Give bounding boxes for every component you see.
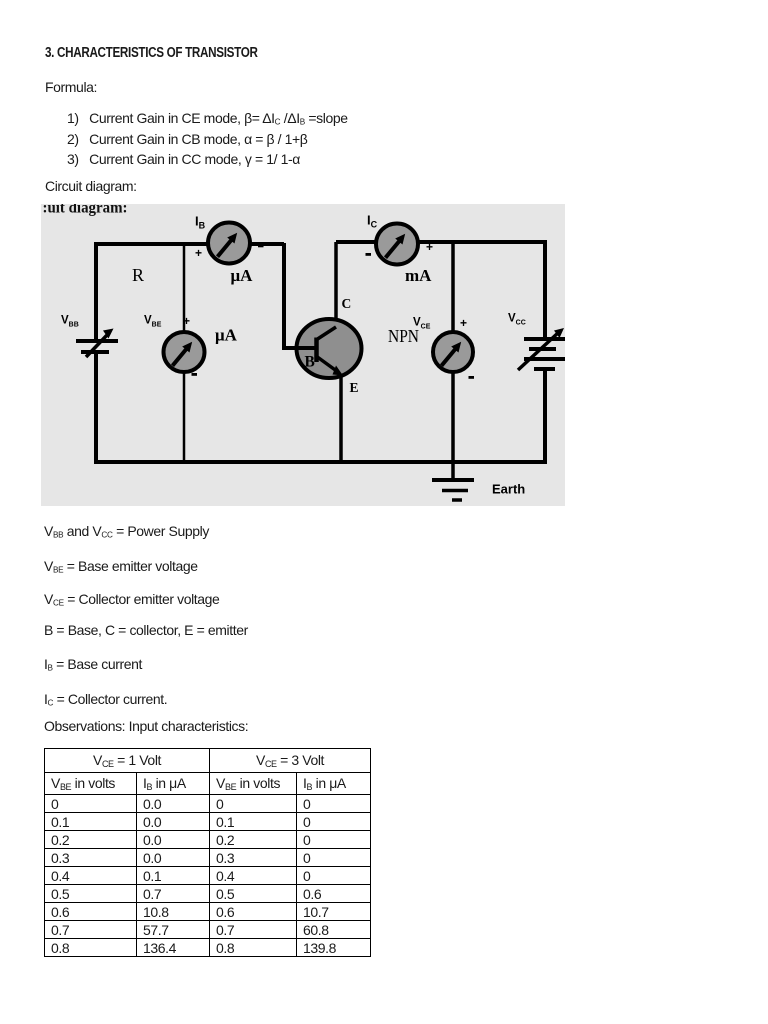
source VBB (variable battery) — [76, 334, 118, 357]
wire: VBE branch vertical — [183, 244, 186, 462]
legend line 1 — [44, 523, 209, 540]
svg-text:VBB: VBB — [61, 315, 79, 329]
IB minus sign — [258, 245, 264, 248]
svg-text:C: C — [342, 296, 352, 311]
VBE minus sign — [192, 373, 198, 376]
svg-text:mA: mA — [405, 266, 432, 285]
svg-text:B: B — [305, 354, 315, 371]
legend line 6 — [44, 691, 167, 708]
wire: right vertical lower (below VCC source) — [543, 369, 547, 464]
heading — [45, 45, 258, 61]
wire: left vertical upper (VBB branch) — [94, 242, 98, 341]
transistor Q1 (NPN) — [282, 319, 362, 378]
wire: top-left horizontal (VBB loop top) — [96, 242, 284, 246]
svg-text:+: + — [460, 316, 467, 330]
svg-text:+: + — [183, 314, 190, 328]
circuit scan image — [41, 204, 565, 506]
wire: top-right horizontal (collector loop top) — [336, 240, 547, 244]
legend line 5 — [44, 656, 142, 673]
svg-text:μA: μA — [215, 326, 238, 345]
svg-text:R: R — [132, 265, 144, 285]
svg-text::uit diagram:: :uit diagram: — [43, 204, 128, 217]
svg-text:+: + — [426, 240, 433, 254]
svg-text:VCC: VCC — [508, 313, 526, 327]
observations caption — [44, 718, 248, 734]
wire: VCE branch vertical — [451, 242, 455, 332]
wire: VCE meter down to ground — [451, 372, 455, 480]
wire: emitter vertical — [339, 374, 343, 462]
ground (Earth) — [432, 480, 474, 500]
wire: IB meter to base corner vertical — [282, 243, 286, 348]
source VCC (variable battery) — [518, 332, 565, 370]
legend line 2 — [44, 558, 198, 575]
list item 2 — [67, 131, 307, 147]
list item 3 — [67, 151, 300, 167]
svg-text:VBE: VBE — [144, 315, 162, 329]
svg-text:+: + — [195, 246, 202, 260]
observations table — [44, 748, 371, 957]
ammeter IB — [208, 223, 250, 264]
legend line 4 — [44, 622, 248, 638]
wire: bottom horizontal — [94, 460, 547, 464]
VCE minus sign — [469, 376, 475, 379]
voltmeter VCE — [433, 332, 473, 372]
wire: left vertical lower (below VBB source) — [94, 352, 98, 464]
wire: right vertical upper (VCC branch) — [543, 240, 547, 339]
svg-text:Earth: Earth — [492, 482, 525, 497]
svg-text:IB: IB — [195, 214, 206, 231]
svg-text:VCE: VCE — [413, 317, 431, 331]
legend line 3 — [44, 591, 219, 608]
Circuit diagram: caption — [45, 178, 137, 194]
ammeter IC — [376, 224, 418, 265]
svg-text:μA: μA — [231, 266, 254, 285]
list item 1 — [67, 110, 348, 127]
IC minus sign — [366, 253, 372, 256]
svg-text:E: E — [350, 380, 359, 395]
svg-text:NPN: NPN — [388, 326, 419, 346]
wire: collector vertical — [334, 242, 338, 330]
voltmeter VBE — [164, 332, 205, 372]
Formula: — [45, 79, 97, 95]
svg-text:IC: IC — [367, 213, 378, 230]
